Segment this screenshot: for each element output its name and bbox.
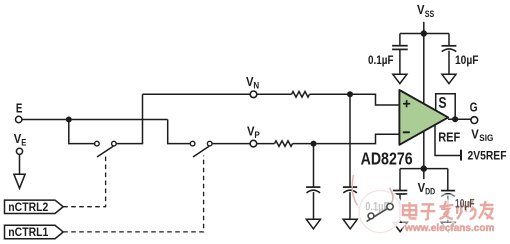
ground below C4 [343, 219, 357, 229]
svg-text:S: S [439, 95, 447, 112]
wire rail to C1 [399, 34, 401, 46]
junction dot V_P node [311, 141, 317, 147]
terminal G output [471, 117, 478, 124]
zi [422, 203, 435, 205]
ground below C3 [306, 219, 320, 229]
svg-text:V: V [471, 127, 479, 142]
svg-text:0.1µF: 0.1µF [368, 53, 394, 67]
wire C1 to ground [399, 49, 401, 74]
svg-text:10µF: 10µF [455, 196, 475, 210]
capacitor C3 plates [306, 186, 320, 188]
svg-text:V: V [417, 2, 425, 17]
switch SW2 circles [190, 141, 195, 146]
fa [440, 205, 454, 207]
svg-text:10µF: 10µF [455, 53, 479, 67]
ground below C5 [393, 222, 408, 231]
svg-text:SIG: SIG [479, 133, 493, 143]
wire output to G terminal [448, 118, 472, 120]
svg-text:E: E [21, 138, 26, 148]
svg-text:2V5REF: 2V5REF [468, 150, 507, 162]
nCTRL2 flag box [5, 200, 64, 213]
wire V_SS stub [423, 22, 425, 34]
you [480, 204, 494, 206]
dashed control line nCTRL1 to SW2 [63, 156, 203, 232]
S box (open-bottom, right side runs to output node) [436, 94, 456, 119]
wire switch2 to V_P row [212, 143, 274, 145]
dashed control line nCTRL2 to SW1 [63, 155, 105, 207]
switch SW2 blade [193, 146, 209, 157]
svg-text:SS: SS [425, 9, 435, 19]
wire V_N node down to capacitor C4 [349, 94, 351, 186]
V_E arrow [14, 174, 25, 188]
svg-text:nCTRL2: nCTRL2 [8, 200, 48, 214]
wire rail to C6 [447, 169, 449, 191]
zi [422, 202, 435, 207]
terminal V_E [16, 148, 22, 154]
wire rail to C5 [399, 169, 401, 190]
wire C2 to ground [448, 51, 450, 75]
watermark CJK text (simplified glyph strokes) [403, 201, 494, 219]
wire C5 to ground [399, 194, 401, 222]
switch SW1 circles [95, 141, 100, 146]
svg-text:P: P [254, 130, 259, 140]
wire C3 to ground [313, 192, 315, 219]
capacitor C5 0.1uF plates [393, 190, 407, 192]
junction dot output node [452, 116, 458, 122]
dian [403, 206, 416, 216]
svg-text:G: G [470, 101, 478, 115]
switch SW1 blade [97, 146, 113, 157]
wire V_DD rail [400, 168, 448, 170]
op-amp plus sign [403, 100, 410, 107]
wire C4 to ground [349, 192, 351, 219]
wire E terminal to riser [21, 119, 168, 121]
wire V_SS rail [400, 33, 449, 35]
ground below C2 [442, 74, 456, 83]
wire rail to C2 [448, 34, 450, 46]
wire switch1 to V_N riser [116, 94, 142, 143]
terminal V_P [250, 140, 257, 147]
terminal E [16, 116, 22, 122]
wire V_SS to op-amp top [423, 34, 425, 105]
svg-text:0.1µF: 0.1µF [365, 199, 389, 213]
ground below C1 [393, 74, 407, 83]
nCTRL1 flag box [5, 225, 64, 238]
resistor R2 [275, 141, 293, 147]
fa [440, 205, 454, 207]
capacitor C2 10uF plates [442, 45, 457, 47]
op-amp minus sign [403, 131, 410, 133]
shao [460, 202, 462, 212]
svg-text:E: E [16, 100, 23, 115]
capacitor C6 10uF plates [441, 190, 455, 192]
svg-text:REF: REF [438, 129, 460, 144]
wire R2 to op-amp - input [293, 134, 400, 143]
junction dot E node [66, 117, 72, 123]
svg-text:AD8276: AD8276 [361, 148, 413, 168]
capacitor C4 plates [343, 186, 357, 188]
watermark glow panel [402, 194, 510, 236]
junction dot V_DD node [421, 165, 427, 171]
svg-text:N: N [253, 80, 259, 90]
watermark logo badge [357, 188, 403, 234]
wire R1 to op-amp + input [310, 94, 400, 105]
wire E junction down to switch1 [69, 120, 95, 144]
svg-text:nCTRL1: nCTRL1 [8, 225, 48, 239]
ground below C6 [441, 222, 455, 231]
shao [459, 202, 464, 212]
watermark [352, 175, 510, 236]
junction dot V_SS node [421, 30, 427, 36]
resistor R1 [292, 92, 310, 98]
junction dot V_N node [347, 91, 353, 97]
watermark CJK text glow [403, 201, 494, 219]
wire C6 to ground [447, 196, 449, 223]
svg-text:www.elecfans.com: www.elecfans.com [404, 222, 494, 234]
wire V_P node down to capacitor C3 [313, 144, 315, 187]
wire V_N row [143, 93, 292, 95]
dian [403, 206, 416, 216]
op-amp U1 AD8276 [399, 90, 448, 145]
wire op-amp bottom to V_DD rail [423, 131, 425, 179]
2V5REF tick [460, 150, 462, 161]
wire E riser down to switch2 [168, 120, 190, 144]
capacitor C1 0.1uF plates [392, 45, 408, 47]
terminal V_N [250, 91, 257, 98]
wire V_E stub [19, 155, 21, 175]
wire REF pin down and right [435, 125, 461, 155]
you [480, 202, 494, 207]
